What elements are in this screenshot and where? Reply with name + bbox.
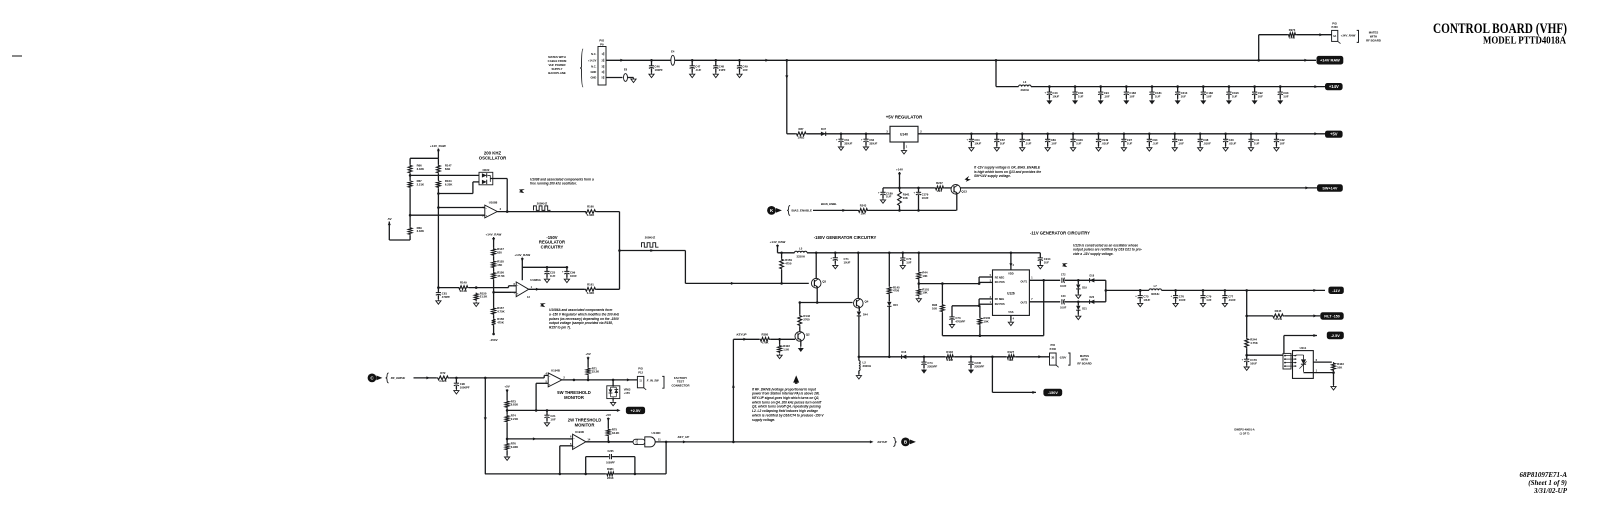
svg-text:62Ω: 62Ω: [445, 167, 451, 171]
resistor R102: [945, 355, 954, 359]
ground of C75: [1138, 302, 1143, 307]
wire C77 lead: [1224, 298, 1226, 302]
ground of C946: [1070, 146, 1075, 151]
wire C949 lead: [1098, 142, 1100, 146]
wire arrow on +14V rail: [1314, 85, 1318, 88]
svg-text:+: +: [836, 137, 838, 141]
junction: [732, 441, 735, 444]
svg-text:C40: C40: [1061, 295, 1066, 298]
wire arrow feedback vertical: [484, 417, 487, 421]
wire R101 lead: [918, 284, 920, 289]
shunt reference inside U111: [1301, 359, 1306, 364]
svg-text:4.79K: 4.79K: [761, 340, 768, 344]
wire reg column: [493, 237, 495, 248]
junction: [1072, 133, 1075, 136]
svg-text:1UF: 1UF: [1206, 94, 1212, 98]
wire CR22 lower jog: [473, 181, 479, 183]
svg-text:MODEL PTTD4018A: MODEL PTTD4018A: [1483, 35, 1566, 47]
ground of C245: [969, 368, 974, 373]
svg-text:R157 to pin 7).: R157 to pin 7).: [549, 326, 571, 330]
svg-text:D19: D19: [1082, 286, 1087, 289]
wire C88 lead: [1021, 142, 1023, 146]
wire C183 lead: [1202, 87, 1204, 93]
wire C76 lead: [1175, 290, 1177, 295]
svg-text:R127: R127: [1007, 350, 1014, 354]
ferrite bead E8: [624, 74, 628, 82]
wire C62 lead: [865, 142, 867, 146]
svg-text:+2.5V: +2.5V: [630, 409, 640, 413]
svg-text:D16: D16: [901, 350, 906, 354]
ground of C99: [564, 278, 569, 283]
wire to U1088 pin 4: [438, 207, 484, 209]
svg-text:333UH: 333UH: [797, 254, 805, 258]
wire reg column: [493, 315, 495, 318]
svg-text:10K: 10K: [1008, 358, 1013, 362]
ground of C213: [1175, 99, 1180, 104]
ground of C196: [1227, 99, 1232, 104]
svg-text:R381: R381: [607, 467, 614, 471]
svg-text:+: +: [913, 191, 915, 195]
connector header pins: [1284, 355, 1286, 357]
wire arrow +14V_RAW reg: [492, 238, 495, 242]
svg-text:4.75K: 4.75K: [1250, 341, 1257, 345]
junction: [1139, 289, 1142, 292]
wire to CR22 lower: [438, 193, 473, 195]
svg-text:L7: L7: [1154, 284, 1158, 288]
svg-text:P/O: P/O: [638, 367, 643, 371]
diode D19: [1076, 285, 1080, 289]
capacitor C265: [609, 454, 611, 459]
capacitor C79: [1200, 295, 1205, 297]
capacitor C189: [880, 191, 885, 193]
svg-text:C62: C62: [869, 138, 874, 142]
wire C96 lead: [1174, 142, 1176, 146]
svg-text:1000PF: 1000PF: [460, 386, 470, 390]
svg-text:2200PF: 2200PF: [927, 365, 937, 369]
resistor R244: [1245, 338, 1249, 349]
op-amp U194D: [573, 434, 586, 449]
wire RF_DRIVE: [414, 377, 437, 379]
wire center column: [437, 188, 439, 287]
junction: [492, 333, 495, 336]
wire C67 lead: [996, 142, 998, 146]
ground of C43: [1047, 99, 1052, 104]
wire reg column: [493, 280, 495, 307]
brace RF_DRIVE: [386, 373, 389, 383]
wire pin2 jog: [978, 299, 980, 306]
ground of R101: [916, 297, 921, 302]
wire U194D output: [586, 441, 633, 443]
diode D20: [1090, 300, 1095, 304]
wire C46 lead: [651, 60, 653, 66]
junction: [1202, 289, 1205, 292]
wire VSS lead: [1010, 315, 1012, 320]
svg-text:4700PF: 4700PF: [955, 319, 965, 323]
junction: [1245, 289, 1248, 292]
svg-text:1000PF: 1000PF: [606, 462, 615, 465]
svg-text:.1UF: .1UF: [1025, 142, 1031, 146]
junction: [858, 356, 861, 359]
wire arrow -150V: [1032, 391, 1036, 394]
junction: [634, 473, 637, 476]
wire R161 out: [597, 288, 620, 290]
ground of D19: [1076, 294, 1081, 299]
zener diode VR63b: [614, 389, 618, 393]
junction: [506, 409, 509, 412]
capacitor C40: [1061, 299, 1063, 304]
svg-text:.01UF: .01UF: [1102, 142, 1110, 146]
resistor R101: [917, 288, 921, 296]
junction: [898, 209, 901, 212]
svg-text:10UF: 10UF: [1143, 298, 1150, 302]
op-amp U1086A: [516, 282, 529, 297]
capacitor C73: [949, 316, 954, 318]
wire rectifier line: [1015, 356, 1049, 358]
I/O port B KEYUP: [901, 438, 910, 447]
svg-text:P12: P12: [638, 370, 643, 374]
svg-text:1UF: 1UF: [1181, 94, 1187, 98]
wire +14V_RAW down to +5V regulator: [786, 60, 788, 134]
resistor R145: [887, 286, 891, 295]
margin dash: [12, 55, 22, 57]
wire C67 lead: [996, 134, 998, 140]
svg-text:68P81097E71-A: 68P81097E71-A: [1520, 471, 1568, 479]
svg-text:1UF: 1UF: [1127, 142, 1133, 146]
brace connector P9: [580, 49, 583, 87]
junction: [1173, 133, 1176, 136]
junction: [815, 252, 818, 255]
wire Q4 collector: [857, 253, 859, 299]
svg-text:E4: E4: [671, 50, 675, 54]
resistor R127: [1006, 355, 1015, 359]
wire C47 lead: [691, 68, 693, 72]
ground of D21: [1076, 315, 1081, 320]
junction: [1021, 133, 1024, 136]
resistor R44: [917, 271, 921, 280]
svg-text:CONNECTOR: CONNECTOR: [672, 384, 690, 388]
svg-text:MONITOR: MONITOR: [564, 395, 584, 400]
ground of C96: [1172, 146, 1177, 151]
junction: [1224, 133, 1227, 136]
junction: [612, 379, 615, 382]
wire C43 lead: [1048, 87, 1050, 93]
ground of C62: [863, 145, 868, 150]
svg-text:.1UF: .1UF: [695, 68, 701, 72]
wire gen rail: [778, 252, 795, 254]
svg-text:free running 200 khz oscillato: free running 200 khz oscillator.: [530, 182, 577, 186]
resistor R147: [437, 164, 441, 174]
junction: [917, 209, 920, 212]
junction: [1123, 133, 1126, 136]
ground of C98: [1198, 146, 1203, 151]
wire +14V rail: [996, 86, 1019, 88]
svg-text:475K: 475K: [497, 321, 504, 325]
wire R74 lead: [506, 410, 508, 414]
junction: [840, 133, 843, 136]
resistor R161: [585, 287, 597, 291]
svg-text:1UF: 1UF: [1283, 94, 1289, 98]
junction: [995, 59, 998, 62]
wire C73 lead: [951, 320, 953, 323]
junction: [1048, 85, 1051, 88]
wire C213 lead: [1177, 95, 1179, 99]
resistor R380: [759, 337, 770, 341]
wire arrow -2.5V: [1313, 334, 1317, 337]
wire C176 lead: [1246, 355, 1248, 359]
svg-text:3.32K: 3.32K: [587, 291, 594, 295]
wire C245 lead: [970, 365, 972, 368]
capacitor C25: [544, 270, 549, 272]
svg-text:D18: D18: [1090, 274, 1095, 277]
wire R160 to junction column: [597, 211, 620, 213]
svg-text:MONITOR: MONITOR: [575, 423, 595, 428]
wire arrow -11V: [1313, 289, 1317, 292]
svg-text:U1088: U1088: [489, 200, 498, 204]
IC U140 voltage regulator: [890, 126, 918, 142]
junction: [970, 133, 973, 136]
svg-text:SW+14V: SW+14V: [1322, 187, 1338, 191]
wire C92 lead: [1254, 87, 1256, 93]
svg-text:10K: 10K: [922, 291, 927, 295]
svg-text:+14V RAW: +14V RAW: [1320, 58, 1340, 63]
junction: [506, 210, 509, 213]
junction: [1077, 301, 1080, 304]
waveform 200KHZ osc out: [534, 206, 551, 211]
inductor L2: [859, 361, 860, 371]
wire R142 lead: [799, 303, 801, 315]
svg-text:GND: GND: [591, 76, 597, 80]
svg-text:.1UF: .1UF: [1104, 94, 1110, 98]
svg-text:GND: GND: [591, 70, 597, 74]
wire BIAS_ENABLE: [813, 209, 858, 211]
ground of C949: [1096, 146, 1101, 151]
resistor R164: [437, 180, 441, 188]
wire C25 lead: [546, 274, 548, 278]
wire Q3 collector: [815, 253, 817, 279]
capacitor C49: [737, 65, 742, 67]
svg-text:L3: L3: [1023, 80, 1027, 84]
wire to pin 5: [979, 276, 992, 278]
ground of C70: [900, 264, 905, 269]
wire CR22 lower jog: [472, 182, 474, 194]
wire C96 lead: [1174, 134, 1176, 140]
svg-text:+14V: +14V: [1329, 84, 1339, 89]
ground of C64: [969, 146, 974, 151]
wire arrow -5V: [388, 222, 391, 226]
svg-text:PJ30: PJ30: [1331, 25, 1338, 29]
resistor R160: [585, 210, 597, 214]
wire +14V_RAW gen feed: [777, 245, 779, 253]
op-amp U194B: [548, 373, 562, 387]
wire arrow down: [785, 75, 788, 79]
wire -5V to R69: [389, 239, 410, 241]
resistor R149: [458, 286, 469, 290]
svg-text:1UF: 1UF: [550, 274, 556, 278]
junction: [535, 409, 538, 412]
junction: [799, 301, 802, 304]
wire +14V_RAW rail: [606, 59, 1316, 61]
wire C71 lead: [834, 253, 836, 258]
wire arrow VDD: [1009, 263, 1012, 267]
svg-text:100PF: 100PF: [655, 68, 664, 72]
wire FILT rail: [1247, 315, 1273, 317]
svg-text:U111: U111: [1300, 346, 1307, 350]
svg-text:21PF: 21PF: [719, 68, 726, 72]
ground of C93: [1278, 99, 1283, 104]
ground of C182: [1124, 99, 1129, 104]
svg-text:33.2Ω: 33.2Ω: [1274, 317, 1282, 321]
junction: [1125, 85, 1128, 88]
svg-text:+14V_RAW: +14V_RAW: [770, 240, 786, 244]
junction: [1042, 279, 1045, 282]
wire to U111 header: [1247, 354, 1283, 356]
wire R145 column: [888, 253, 890, 286]
bracket PJ30: [1357, 30, 1359, 42]
ground of C71: [833, 264, 838, 269]
svg-text:3/31/02-UP: 3/31/02-UP: [1533, 487, 1568, 495]
capacitor C74: [921, 361, 926, 363]
junction: [409, 214, 412, 217]
wire SW+14V rail: [960, 187, 1317, 189]
wire U1088 output: [497, 211, 585, 213]
wire C183 lead: [1202, 95, 1204, 99]
wire C62 lead: [865, 134, 867, 139]
junction: [546, 266, 549, 269]
wire arrow to PJ30 -150V: [1038, 355, 1042, 358]
ground of C89: [1045, 146, 1050, 151]
wire pin5 to +2.5V rail: [535, 383, 537, 410]
ground of R150: [474, 302, 479, 307]
wire to VR63: [612, 380, 614, 386]
wire R69 lead: [409, 235, 411, 240]
wire C77 lead: [1224, 290, 1226, 295]
capacitor C43: [1047, 91, 1052, 93]
svg-text:3.32K: 3.32K: [417, 167, 424, 171]
wire C70 lead: [902, 261, 904, 264]
svg-text:D20: D20: [1090, 296, 1095, 299]
svg-text:1UF: 1UF: [1155, 94, 1161, 98]
wire arrow KEY_UP: [683, 440, 687, 443]
svg-text:10K: 10K: [861, 212, 866, 216]
capacitor C67: [994, 138, 999, 140]
capacitor C946: [1070, 138, 1075, 140]
junction: [996, 133, 999, 136]
U111 internal pins: [1291, 355, 1297, 357]
wire 200KHZ to Q3 base: [685, 282, 808, 284]
svg-text:+5V: +5V: [504, 385, 509, 389]
svg-text:U1086A and associated componen: U1086A and associated components form: [549, 308, 612, 312]
junction: [1148, 133, 1151, 136]
wire C213 lead: [1177, 87, 1179, 93]
diode D47: [821, 132, 826, 136]
svg-text:pulses (as necessary) dependin: pulses (as necessary) depending on the -…: [548, 317, 620, 321]
capacitor C70: [900, 257, 905, 259]
resistor R158: [492, 318, 496, 326]
svg-text:1.5K: 1.5K: [783, 348, 789, 352]
wire C70 lead: [902, 253, 904, 258]
resistor R156: [492, 272, 496, 280]
svg-text:+5V REGULATOR: +5V REGULATOR: [886, 114, 923, 119]
wire C75 lead: [1139, 290, 1141, 295]
wire R67 to pin5 net: [409, 188, 411, 215]
resistor R96: [941, 304, 945, 313]
junction: [1097, 133, 1100, 136]
svg-text:(Sheet 1 of 9): (Sheet 1 of 9): [1528, 479, 1567, 487]
capacitor C213: [1175, 91, 1180, 93]
wire arrow RF_DRIVE: [426, 376, 430, 379]
wire C43 lead: [1048, 95, 1050, 99]
svg-text:RF BOARD: RF BOARD: [1366, 38, 1381, 42]
transistor Q4: [854, 298, 864, 308]
wire C93 lead: [1279, 95, 1281, 99]
svg-text:1UF: 1UF: [1078, 94, 1084, 98]
net label +5V: [1325, 131, 1343, 138]
svg-text:.01UF: .01UF: [1229, 142, 1237, 146]
wire arrow KEYUP: [743, 338, 747, 341]
svg-text:KEY_UP: KEY_UP: [678, 435, 690, 439]
svg-text:10K: 10K: [922, 274, 927, 278]
junction: [573, 379, 576, 382]
junction: [780, 282, 783, 285]
junction: [650, 59, 653, 62]
capacitor C41: [1248, 138, 1253, 140]
junction: [941, 282, 944, 285]
svg-text:U126: U126: [1007, 291, 1015, 295]
svg-text:330UF: 330UF: [844, 142, 852, 146]
svg-text:200 KHZ: 200 KHZ: [484, 150, 502, 155]
svg-text:1UF: 1UF: [906, 260, 912, 264]
svg-text:C72: C72: [1061, 274, 1066, 277]
junction: [918, 252, 921, 255]
svg-text:+: +: [1135, 294, 1137, 298]
junction: [865, 133, 868, 136]
wire R100 lead: [979, 306, 981, 317]
ground of U126 VSS: [1008, 321, 1013, 326]
wire RF_DRIVE to U194B: [449, 377, 544, 379]
svg-text:R72: R72: [440, 371, 446, 375]
wire into U140: [787, 133, 796, 135]
wire C84 lead: [1074, 95, 1076, 99]
svg-text:U140D: U140D: [652, 431, 661, 435]
capacitor C244: [1038, 257, 1043, 259]
svg-text:33.2K: 33.2K: [460, 289, 467, 293]
wire C64 lead: [970, 134, 972, 140]
svg-text:.1UF: .1UF: [1178, 142, 1184, 146]
capacitor C99: [564, 270, 569, 272]
svg-text:OUT1: OUT1: [1021, 281, 1028, 284]
junction: [437, 192, 440, 195]
wire R73 lead: [506, 408, 508, 410]
revision arrow at regulator note: [539, 302, 546, 308]
wire arrow KEYUP vertical: [732, 384, 735, 388]
wire +14V_RAW to L3: [995, 60, 997, 86]
wire 200KHZ to generator: [620, 250, 686, 252]
junction: [607, 441, 610, 444]
wire into pin 6: [512, 285, 516, 287]
capacitor C64: [969, 138, 974, 140]
svg-text:a -150 V Regulator which modif: a -150 V Regulator which modifies the 20…: [549, 312, 620, 316]
wire -11V rail: [1106, 289, 1149, 291]
transistor Q3: [811, 278, 821, 288]
svg-text:47.5K: 47.5K: [497, 274, 504, 278]
wire to U194D pin 6: [507, 438, 568, 440]
svg-text:6.81K: 6.81K: [511, 403, 518, 407]
svg-text:+14.2V: +14.2V: [588, 58, 597, 62]
diode D44: [857, 312, 861, 316]
wire C73 net: [952, 305, 979, 307]
ground of C25: [544, 278, 549, 283]
junction: [1279, 85, 1282, 88]
